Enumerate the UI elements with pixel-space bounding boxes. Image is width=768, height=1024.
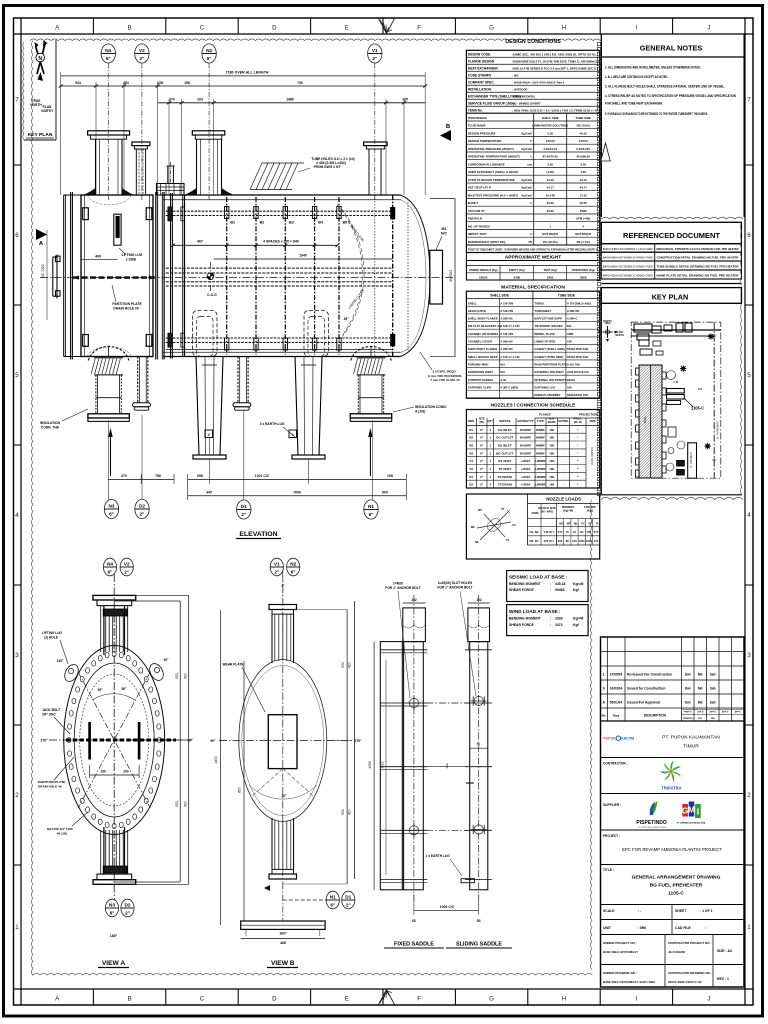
balloon N2	[202, 44, 216, 63]
svg-text:SS DRAIN: SS DRAIN	[498, 475, 512, 479]
svg-text:6": 6"	[330, 903, 335, 908]
svg-text:APPROXIMATE WEIGHT: APPROXIMATE WEIGHT	[505, 255, 562, 261]
svg-text:-: -	[563, 428, 564, 432]
svg-text:6: 6	[15, 232, 19, 239]
svg-text:6": 6"	[369, 512, 374, 517]
svg-text:TIE ROD/SP. SPACER: TIE ROD/SP. SPACER	[534, 324, 562, 328]
svg-text:1980: 1980	[286, 98, 294, 102]
svg-text:6": 6"	[106, 56, 111, 61]
sliding saddle small dims	[470, 747, 488, 749]
svg-text:#8 (JH): #8 (JH)	[57, 832, 67, 836]
svg-text:DESIGN TEMPERATURE: DESIGN TEMPERATURE	[468, 139, 502, 143]
svg-text:PT. PISPETINDO MESIN UTAMA: PT. PISPETINDO MESIN UTAMA	[638, 826, 668, 829]
svg-text:JE=0401202: JE=0401202	[668, 950, 685, 954]
svg-text:: NO: : NO	[512, 74, 519, 78]
svg-text:300#/RF: 300#/RF	[520, 444, 532, 448]
svg-text:45.00: 45.00	[547, 209, 555, 213]
svg-text:(1.00): (1.00)	[546, 170, 554, 174]
svg-text:552: 552	[175, 801, 179, 807]
svg-text:WNRF: WNRF	[536, 451, 545, 455]
VIEW B internal diagonals	[253, 769, 283, 796]
svg-text:GASKET (SHELL SIDE): GASKET (SHELL SIDE)	[534, 347, 564, 351]
svg-text:SCALE: SCALE	[603, 909, 615, 913]
svg-text:89: 89	[566, 539, 569, 543]
svg-text:NORTH: NORTH	[30, 103, 42, 107]
svg-text:GENERAL ARRANGEMENT DRAWING: GENERAL ARRANGEMENT DRAWING	[632, 875, 721, 881]
svg-text:740 (6"): 740 (6")	[544, 530, 554, 534]
fixed saddle detail	[380, 642, 402, 890]
VIEW A bottom nozzle	[93, 880, 136, 885]
svg-text:INSULATION CONN.: INSULATION CONN.	[415, 405, 447, 409]
svg-text:PUPUK: PUPUK	[603, 737, 616, 741]
svg-text:270°: 270°	[354, 739, 362, 743]
girth flange top detail	[157, 184, 185, 196]
svg-text:60°: 60°	[98, 688, 104, 692]
girth flange pair	[155, 192, 157, 360]
svg-text:TUBESHEET: TUBESHEET	[534, 309, 551, 313]
svg-text:Re-Issued For Construction: Re-Issued For Construction	[627, 672, 672, 676]
svg-text:A36: A36	[567, 340, 572, 344]
nozzle V2 (top, 2in)	[132, 142, 150, 146]
svg-text:FOR 1" ANCHOR BOLT: FOR 1" ANCHOR BOLT	[437, 586, 472, 590]
svg-text:1940: 1940	[299, 254, 307, 258]
svg-text:REV : 1: REV : 1	[717, 977, 729, 981]
svg-text:NG (GAS): NG (GAS)	[577, 124, 590, 128]
svg-text:TUBE SIDE: TUBE SIDE	[576, 116, 591, 120]
svg-text:1.00: 1.00	[580, 170, 586, 174]
svg-text:2939: 2939	[555, 617, 563, 621]
svg-text:Sah: Sah	[710, 672, 716, 676]
svg-text:VIEW A: VIEW A	[102, 960, 126, 967]
sliding saddle detail	[470, 642, 488, 890]
VIEW B bottom nozzle	[269, 874, 297, 879]
svg-text:WNRF: WNRF	[536, 428, 545, 432]
svg-text:575: 575	[594, 530, 599, 534]
nozzle base flares	[85, 188, 96, 195]
svg-text:PS (10.1%): PS (10.1%)	[543, 240, 558, 244]
svg-text:REFERENCED DOCUMENT: REFERENCED DOCUMENT	[623, 231, 720, 240]
svg-text:BENDING MOMENT: BENDING MOMENT	[509, 617, 542, 621]
svg-text:27/05/04: 27/05/04	[610, 672, 623, 676]
fixed saddle left dims	[373, 642, 375, 890]
svg-text:Sah: Sah	[710, 700, 716, 704]
svg-text:400: 400	[95, 255, 101, 259]
key plan right title	[601, 288, 741, 304]
svg-text:ASME SEC. VIII DIV.1 2001 ED.: ASME SEC. VIII DIV.1 2001 ED. ADD 2003 K…	[512, 53, 596, 57]
referenced document	[601, 222, 741, 243]
svg-text:FROM DWG # NT: FROM DWG # NT	[314, 165, 341, 169]
svg-text:Sah: Sah	[710, 686, 716, 690]
svg-text:BG FUEL PREHEATER: BG FUEL PREHEATER	[650, 883, 703, 889]
VIEW A dims right	[179, 601, 181, 882]
svg-text:RATING: RATING	[558, 419, 568, 423]
nozzle N1 (bottom, insulated)	[351, 346, 392, 360]
svg-text:PT. PUPUK KALIMANTAN: PT. PUPUK KALIMANTAN	[662, 735, 720, 741]
svg-text:370: 370	[169, 98, 175, 102]
svg-text:GENERAL NOTES: GENERAL NOTES	[640, 44, 703, 53]
svg-text:V1: V1	[469, 459, 473, 463]
svg-text:Dwi: Dwi	[685, 672, 691, 676]
svg-text:46.55: 46.55	[580, 132, 588, 136]
bottom dim lines	[107, 420, 109, 500]
channel box	[81, 195, 153, 357]
svg-text:LIFTING LUG: LIFTING LUG	[42, 631, 63, 635]
svg-text:SS VENT: SS VENT	[498, 459, 511, 463]
VIEW A partition plate	[66, 739, 176, 742]
svg-text:COMPANY SPEC.: COMPANY SPEC.	[468, 80, 495, 84]
svg-text:13.16: 13.16	[547, 178, 555, 182]
svg-text:GASKET (TUBE SIDE): GASKET (TUBE SIDE)	[534, 355, 563, 359]
svg-text:GIRTH BODY FLANGE: GIRTH BODY FLANGE	[468, 347, 498, 351]
svg-text:TS VENT: TS VENT	[498, 467, 511, 471]
svg-text:A 36: A 36	[500, 378, 506, 382]
nozzle D1 (bottom small mid)	[237, 357, 239, 403]
svg-text:DRAIN HOLE #6: DRAIN HOLE #6	[38, 785, 62, 789]
svg-text:BG OUTLET: BG OUTLET	[496, 451, 513, 455]
svg-text:Kg/CmG: Kg/CmG	[521, 194, 532, 198]
dimension extension lines	[60, 72, 62, 195]
svg-text:FC: FC	[512, 523, 516, 527]
svg-text:552: 552	[341, 662, 345, 668]
svg-text:DRAIN HOLE #6: DRAIN HOLE #6	[113, 307, 138, 311]
svg-text:PT. GERMAN INDONESIA JAYA: PT. GERMAN INDONESIA JAYA	[677, 822, 706, 825]
svg-text:460: 460	[594, 539, 599, 543]
svg-text:NOZZLES / CONNECTION SCHEDULE: NOZZLES / CONNECTION SCHEDULE	[491, 403, 576, 408]
svg-text:MATERIAL SPECIFICATION: MATERIAL SPECIFICATION	[501, 285, 565, 291]
key plan small rects + labels	[677, 461, 685, 467]
partition plate (thick dashes on CL)	[73, 276, 155, 278]
svg-text:MRK: MRK	[468, 419, 474, 423]
svg-text:111: 111	[580, 530, 585, 534]
svg-text:M: M	[688, 805, 695, 815]
project no row	[601, 964, 745, 966]
svg-text:786: 786	[155, 474, 161, 478]
svg-text:160: 160	[549, 428, 554, 432]
svg-text:20.00: 20.00	[547, 201, 555, 205]
svg-text:N1: N1	[469, 428, 473, 432]
balloon V1	[368, 44, 382, 63]
svg-text:4.20/44.04: 4.20/44.04	[543, 147, 557, 151]
svg-text:Dwg: Dwg	[613, 714, 620, 718]
svg-text:6": 6"	[108, 570, 113, 575]
svg-text:SS304: SS304	[567, 378, 576, 382]
baffles B1-B5 (dash-dot) with labels	[226, 197, 228, 355]
nozzle arcs into channel	[87, 195, 131, 205]
svg-text:552: 552	[341, 809, 345, 815]
lifting lug channel	[114, 214, 121, 245]
svg-text:Kg/=M: Kg/=M	[573, 617, 583, 621]
project band	[601, 864, 745, 866]
svg-text:300#/RF: 300#/RF	[520, 451, 532, 455]
svg-text:QTY: QTY	[487, 419, 493, 423]
svg-text:102: 102	[476, 598, 482, 602]
svg-text:PWHT/S.R: PWHT/S.R	[468, 217, 483, 221]
svg-text:2: 2	[15, 792, 19, 799]
svg-text:420: 420	[348, 662, 352, 668]
svg-text:4298: 4298	[368, 761, 372, 768]
svg-text:D2: D2	[124, 903, 130, 908]
tubesheet (black tabs)	[392, 195, 394, 357]
svg-text:TS DRAIN: TS DRAIN	[498, 483, 512, 487]
svg-text:N/C: N/C	[441, 232, 448, 236]
3-col section	[466, 112, 599, 114]
svg-text:C: C	[200, 25, 205, 32]
svg-text:CONSTRUCTION DETAIL DRAWING NO: CONSTRUCTION DETAIL DRAWING NO FUEL PRE …	[657, 256, 740, 260]
earth lug pads	[461, 879, 475, 883]
nozzles connection schedule	[466, 397, 599, 399]
key plan compass	[603, 331, 613, 333]
svg-text:EXPANSION JOINT: EXPANSION JOINT	[468, 370, 493, 374]
svg-text:05/01/04: 05/01/04	[610, 700, 623, 704]
svg-text:2": 2"	[274, 570, 279, 575]
svg-text:Md: Md	[698, 686, 703, 690]
svg-text:Kg/CmG: Kg/CmG	[521, 186, 532, 190]
svg-text:3. ALL FLANGE BOLT HOLES SHAL: 3. ALL FLANGE BOLT HOLES SHALL STRADDLE …	[605, 85, 725, 89]
svg-text:LWNRF: LWNRF	[535, 475, 546, 479]
svg-text:OPERATING TEMPERATURE (IN/OUT): OPERATING TEMPERATURE (IN/OUT)	[468, 155, 520, 159]
svg-text:420: 420	[184, 673, 188, 679]
svg-text:-: -	[563, 483, 564, 487]
svg-text:7 mm THK ALUM. #3: 7 mm THK ALUM. #3	[430, 378, 460, 382]
svg-text:MC: MC	[471, 525, 475, 529]
svg-text:TUBE BUNDLE DETAIL DRAWING NO: TUBE BUNDLE DETAIL DRAWING NO FUEL PRE H…	[657, 265, 740, 269]
section arrow A left	[36, 229, 47, 240]
svg-text:1300: 1300	[586, 539, 592, 543]
approximate weight	[466, 252, 599, 254]
svg-text:7090: 7090	[293, 491, 301, 495]
svg-text:B: B	[128, 25, 132, 32]
svg-text:EXTERNAL BOLT/NUT: EXTERNAL BOLT/NUT	[534, 370, 564, 374]
svg-text:466: 466	[280, 941, 286, 945]
nozzle D2 (bottom small)	[137, 357, 139, 403]
girth vent coupling	[167, 166, 169, 184]
svg-text:200: 200	[123, 770, 129, 774]
svg-text:AEU HORIZONTAL: AEU HORIZONTAL	[512, 94, 535, 98]
svg-text:IMPING. PLATE: IMPING. PLATE	[534, 332, 554, 336]
svg-text:3.00: 3.00	[547, 163, 553, 167]
svg-text:130: 130	[572, 539, 577, 543]
svg-text:87.60/70.50: 87.60/70.50	[543, 155, 559, 159]
svg-text:D: D	[272, 25, 277, 32]
svg-text:1105-C: 1105-C	[691, 406, 704, 411]
VIEW B dim lines left	[220, 610, 222, 925]
svg-text:Md: Md	[698, 700, 703, 704]
svg-text:215: 215	[558, 530, 563, 534]
svg-text:D1: D1	[241, 504, 247, 509]
svg-text:440: 440	[206, 491, 212, 495]
VIEW A lifting lug ears	[62, 662, 81, 684]
VIEW B base dims	[245, 929, 247, 936]
svg-text:270°: 270°	[40, 739, 48, 743]
svg-text:G: G	[489, 996, 494, 1003]
svg-text:SHELL BODY FLANGE: SHELL BODY FLANGE	[468, 317, 498, 321]
svg-text:850: 850	[238, 787, 242, 793]
svg-text:460: 460	[558, 539, 563, 543]
svg-text:BAFFLE/TUBE SUPP: BAFFLE/TUBE SUPP	[534, 317, 562, 321]
svg-text:A 516 70N: A 516 70N	[500, 332, 513, 336]
wind load box	[507, 605, 588, 636]
svg-text:N/A: N/A	[567, 324, 572, 328]
svg-text:160: 160	[549, 451, 554, 455]
svg-text:mm: mm	[527, 164, 532, 167]
svg-text:200 (6"): 200 (6")	[544, 539, 554, 543]
svg-text:310°: 310°	[57, 659, 64, 663]
svg-text:50°: 50°	[164, 658, 170, 662]
bundle removal dashed arcs	[341, 208, 364, 337]
svg-text:16/03/04: 16/03/04	[610, 686, 623, 690]
nozzle V1 (top, 2in)	[364, 142, 388, 146]
svg-text:HYDR AT DESIGN TEMPERATURE: HYDR AT DESIGN TEMPERATURE	[468, 178, 515, 182]
svg-text:N3: N3	[109, 903, 115, 908]
svg-text:N4: N4	[469, 451, 473, 455]
svg-text:CONN. THK: CONN. THK	[41, 426, 60, 430]
svg-text:4=D: 4=D	[698, 388, 703, 391]
svg-text:(Kgf): (Kgf)	[587, 509, 593, 513]
svg-text:FL: FL	[596, 522, 600, 526]
svg-text:2=M20: 2=M20	[393, 582, 403, 586]
svg-text:45.0/98.00: 45.0/98.00	[576, 155, 590, 159]
svg-text:RADIOGRAPHY (SPOT R%): RADIOGRAPHY (SPOT R%)	[468, 240, 506, 244]
svg-text:BG INLET: BG INLET	[498, 444, 512, 448]
svg-text:6": 6"	[207, 56, 212, 61]
svg-text:FT: FT	[501, 507, 505, 511]
svg-text:N3, N4: N3, N4	[530, 539, 539, 543]
svg-text:N2: N2	[290, 562, 296, 567]
key plan (top-left) box	[23, 42, 24, 140]
svg-text:SIZE: SIZE	[479, 417, 485, 421]
svg-text:WNRF: WNRF	[536, 444, 545, 448]
svg-text:190: 190	[100, 770, 106, 774]
svg-text:APP D: APP D	[734, 711, 741, 714]
svg-text:Kg/CmG: Kg/CmG	[521, 178, 532, 182]
VIEW A centerlines	[49, 739, 183, 741]
unit/cad row	[601, 934, 745, 936]
svg-text:Dwi: Dwi	[685, 700, 691, 704]
VIEW B saddle base	[241, 921, 325, 929]
svg-text:300#/RF: 300#/RF	[520, 428, 532, 432]
svg-text:F-01: F-01	[674, 382, 679, 384]
svg-text:370: 370	[121, 474, 127, 478]
svg-text:CORROSION ALLOWANCE: CORROSION ALLOWANCE	[468, 163, 505, 167]
svg-text:No: No	[602, 714, 606, 718]
svg-text:160: 160	[549, 483, 554, 487]
svg-text:J: J	[707, 996, 710, 1003]
C.O.G symbol	[207, 273, 214, 280]
svg-text:79: 79	[566, 530, 569, 534]
svg-text:40: 40	[573, 530, 576, 534]
svg-text:CHK D: CHK D	[697, 712, 704, 714]
svg-text:A 516-70N: A 516-70N	[500, 309, 513, 313]
svg-text:B3: B3	[289, 221, 294, 225]
svg-text:N1, N2: N1, N2	[530, 530, 539, 534]
bottom balloons	[104, 499, 118, 518]
svg-text:EMPTY (Kg): EMPTY (Kg)	[509, 268, 525, 272]
svg-text:FABRIC WEIGHT (Kg): FABRIC WEIGHT (Kg)	[469, 268, 497, 272]
svg-text:-: -	[550, 217, 551, 221]
svg-text:KEY PLAN: KEY PLAN	[28, 132, 53, 138]
svg-text:500: 500	[587, 530, 592, 534]
top dimension lines	[61, 75, 426, 77]
svg-text:ELEVATION: ELEVATION	[239, 531, 277, 538]
svg-text:160: 160	[549, 475, 554, 479]
svg-text:FLANGE: FLANGE	[539, 413, 551, 417]
svg-text:Md: Md	[698, 672, 703, 676]
VIEW B dim lines right	[346, 610, 348, 885]
svg-text:C: C	[530, 232, 532, 236]
svg-text:I: I	[636, 996, 638, 1003]
svg-text:UNIT: UNIT	[603, 926, 612, 930]
svg-text:H: H	[562, 25, 566, 32]
svg-text:NORTH: NORTH	[615, 335, 624, 337]
svg-text:4: 4	[747, 512, 751, 519]
svg-text:103: 103	[197, 98, 203, 102]
nozzle N3 (bottom, insulated)	[88, 346, 129, 360]
svg-text:Kg/=M: Kg/=M	[573, 582, 583, 586]
svg-text:JL. PROJECT: JL. PROJECT	[689, 452, 693, 469]
svg-text:NOT REQ'D: NOT REQ'D	[575, 232, 591, 236]
svg-text:N: N	[38, 56, 42, 62]
svg-text:Kg/CmG: Kg/CmG	[521, 132, 532, 136]
svg-text:A 516=7 / A 105: A 516=7 / A 105	[500, 324, 520, 328]
svg-text:6: 6	[747, 232, 751, 239]
svg-text:0: 0	[603, 686, 605, 690]
title block outer	[601, 637, 745, 987]
svg-text:N/A: N/A	[500, 363, 505, 367]
svg-text:LINING OF ROD: LINING OF ROD	[534, 340, 555, 344]
svg-text:ANSI 16.47M SERIES B FLG 2.5 x: ANSI 16.47M SERIES B FLG 2.5 x/m BFF 1, …	[512, 67, 598, 71]
svg-text:Dwi: Dwi	[685, 686, 691, 690]
svg-text:C: C	[530, 139, 532, 143]
svg-text:I: I	[697, 807, 699, 817]
VIEW A top nozzle	[93, 595, 136, 600]
svg-text:SS316 SPW ASB: SS316 SPW ASB	[567, 355, 588, 359]
svg-text:420: 420	[348, 809, 352, 815]
svg-text:PLANT: PLANT	[616, 331, 624, 334]
svg-text:N3: N3	[469, 444, 473, 448]
svg-text:SHEET: SHEET	[675, 909, 687, 913]
svg-text:FL: FL	[506, 538, 510, 542]
svg-text:B402=KBA=32Y0008A1Y=DWG=T003: B402=KBA=32Y0008A1Y=DWG=T003	[603, 256, 653, 260]
key plan sketch border	[631, 322, 721, 478]
svg-text:SCH.: SCH.	[549, 417, 556, 421]
svg-text:13.10: 13.10	[580, 178, 588, 182]
svg-text:160: 160	[549, 459, 554, 463]
svg-text:D2: D2	[469, 483, 473, 487]
svg-text:1: 1	[15, 924, 19, 931]
channel corner clips	[83, 208, 89, 220]
svg-text:CHANNEL COVER: CHANNEL COVER	[468, 340, 492, 344]
svg-text:NOM: NOM	[532, 511, 539, 515]
svg-text:90466: 90466	[555, 588, 565, 592]
svg-text:+/300#: +/300#	[521, 459, 531, 463]
svg-text:BORE: BORE	[548, 420, 556, 424]
nozzle loads sketch	[480, 511, 509, 540]
svg-text:FLUID NAME: FLUID NAME	[468, 124, 486, 128]
svg-text:RMK: RMK	[590, 419, 596, 423]
svg-text:S/S FLAT (W.GASKET+S): S/S FLAT (W.GASKET+S)	[468, 324, 501, 328]
svg-text:Issued for Construction: Issued for Construction	[627, 686, 665, 690]
svg-text:PKT: PKT	[698, 718, 703, 720]
design conditions table	[466, 50, 599, 252]
svg-text:N2: N2	[469, 436, 473, 440]
svg-text:PREP D: PREP D	[684, 712, 692, 714]
svg-text:V2: V2	[469, 467, 473, 471]
torn paper wavy border	[30, 39, 600, 41]
balloon leader centerlines	[107, 64, 109, 202]
svg-text:B402=KBA=32Y0008A1Y=GAD=1002: B402=KBA=32Y0008A1Y=GAD=1002	[603, 980, 655, 984]
svg-text:MAX/TEST PRESSURE (H.S = HORZ): MAX/TEST PRESSURE (H.S = HORZ)	[468, 194, 518, 198]
svg-text:A (J/S): A (J/S)	[415, 410, 425, 414]
